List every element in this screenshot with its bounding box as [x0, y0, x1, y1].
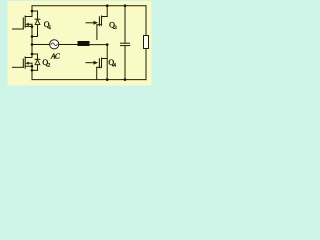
node: Q2 drain junction — [31, 53, 34, 56]
transistor Q3 MOSFET — [86, 6, 107, 40]
node: bottom rail / right leg — [106, 78, 109, 81]
svg-text:3: 3 — [114, 25, 117, 31]
node: Q1 source junction — [31, 25, 34, 28]
node: Q1 drain junction — [31, 10, 34, 13]
svg-text:1: 1 — [49, 25, 52, 31]
wire AC to inductor — [59, 44, 78, 46]
diode D2 (antiparallel with Q2) — [32, 54, 40, 70]
svg-text:AC: AC — [50, 51, 60, 60]
wire left leg bottom — [31, 70, 33, 79]
node: bottom rail / capacitor — [124, 78, 127, 81]
svg-text:2: 2 — [48, 62, 51, 68]
AC source — [50, 40, 59, 49]
transistor Q2 MOSFET — [12, 54, 32, 70]
load resistor R — [144, 36, 149, 49]
wire right mid vertical — [106, 45, 108, 80]
node: top rail / capacitor — [124, 4, 127, 7]
node: inductor / right leg junction — [106, 43, 109, 46]
wire bottom rail — [32, 79, 146, 81]
node: Q2 source junction — [31, 65, 34, 68]
node: top rail / Q3 drain — [106, 4, 109, 7]
svg-text:4: 4 — [113, 62, 116, 68]
node: AC branch junction — [31, 43, 34, 46]
transistor Q1 MOSFET — [12, 16, 32, 37]
wire right leg lower — [145, 49, 147, 80]
transistor Q4 MOSFET — [86, 58, 107, 80]
node: Q2 source / D2 junction — [31, 69, 34, 72]
diode D1 (antiparallel with Q1) — [32, 11, 40, 37]
wire AC branch left — [32, 44, 50, 46]
schematic canvas background — [8, 1, 152, 86]
wire left leg middle — [31, 37, 33, 55]
wire top rail — [32, 5, 146, 7]
node: Q1 source / D1 junction — [31, 35, 34, 38]
capacitor C — [120, 6, 129, 80]
wire left leg top — [31, 6, 33, 17]
wire right leg upper — [145, 6, 147, 36]
wire inductor to right leg — [90, 44, 108, 46]
inductor L (solid block) — [78, 41, 90, 46]
